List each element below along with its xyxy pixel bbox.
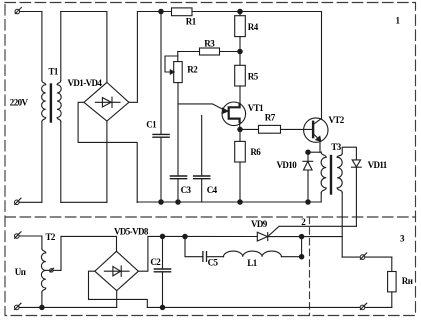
wire secondary top to bridge AC1 — [61, 12, 107, 83]
node junction VD10 top — [306, 150, 310, 154]
resistor R6 — [235, 129, 246, 202]
node junction C2 bottom — [160, 305, 164, 309]
svg-text:VD11: VD11 — [368, 160, 388, 170]
wire DC minus bottom rail — [147, 306, 391, 308]
wire VT1 base1 to junction — [239, 121, 241, 129]
wire L1 to node — [281, 256, 301, 258]
diode symbol inside VD1-VD4 — [95, 97, 120, 107]
svg-text:R7: R7 — [265, 113, 276, 123]
transformer T1 secondary winding — [57, 81, 61, 122]
node junction C1 bottom — [159, 200, 163, 204]
svg-text:Rн: Rн — [402, 276, 413, 286]
svg-text:L1: L1 — [247, 258, 257, 268]
wire bridge2 AC2 bottom lead — [116, 291, 118, 308]
tap of T2 — [46, 268, 61, 272]
wire VD9 cathode diagonal to upper line — [268, 226, 357, 236]
node junction L1 right — [299, 255, 303, 259]
capacitor C3 — [170, 176, 186, 202]
wire secondary bottom to bridge AC2 — [61, 201, 107, 203]
wire T3 secondary to RH — [342, 256, 392, 258]
resistor R1 — [172, 8, 193, 16]
svg-text:T3: T3 — [331, 142, 341, 152]
svg-text:R3: R3 — [204, 38, 215, 48]
diode VD9 — [257, 232, 342, 241]
capacitor C5 — [203, 252, 224, 262]
wire T1 primary bottom lead — [41, 122, 43, 203]
wire T3 secondary top to VD11 — [342, 147, 356, 160]
terminal output bottom — [360, 303, 367, 310]
svg-text:C2: C2 — [150, 257, 161, 267]
diode VD10 — [303, 152, 313, 202]
wire VT1 emitter from R2 node — [178, 104, 225, 111]
transistor VT1 (unijunction) — [222, 102, 246, 126]
node junction R6 bottom — [238, 200, 242, 204]
wire tap up to rail — [60, 236, 62, 270]
resistor R4 — [235, 12, 246, 52]
capacitor C2 — [154, 236, 170, 307]
node junction C5 branch — [183, 234, 187, 238]
node junction T2 bottom — [40, 305, 44, 309]
node junction VD9 out — [299, 234, 303, 238]
svg-text:R2: R2 — [187, 65, 198, 75]
bridge rectifier VD5-VD8 diamond — [95, 251, 139, 290]
svg-text:C1: C1 — [146, 120, 157, 130]
svg-text:R1: R1 — [186, 17, 197, 27]
svg-text:T2: T2 — [46, 232, 56, 242]
wire VT2 emitter down — [319, 140, 321, 152]
svg-text:VD10: VD10 — [277, 160, 298, 170]
node junction C1 top — [159, 9, 163, 13]
svg-text:C3: C3 — [181, 185, 192, 195]
terminal output top — [360, 253, 367, 260]
wire DC minus rail section1 — [137, 201, 321, 203]
wire T2 bottom lead — [41, 292, 43, 307]
node junction R4/R5/R3 — [238, 49, 242, 53]
node junction C3 bottom — [176, 200, 180, 204]
svg-text:T1: T1 — [49, 67, 59, 77]
svg-text:VT1: VT1 — [248, 103, 264, 113]
wire top rail R1 to VT2 collector — [192, 12, 322, 119]
resistor R5 — [235, 52, 246, 108]
border section divider vertical (2/3) — [309, 217, 311, 316]
node junction C2 top — [160, 234, 164, 238]
svg-text:C4: C4 — [207, 185, 218, 195]
terminal T2 bottom — [14, 303, 21, 310]
svg-text:R5: R5 — [248, 71, 259, 81]
transformer T1 core — [50, 85, 52, 122]
wire T1 secondary bottom lead — [60, 122, 62, 203]
resistor R7 — [240, 125, 313, 133]
potentiometer R2 — [174, 52, 183, 83]
wire bridge1 DC minus routing — [78, 102, 137, 202]
wire terminal to T2 top — [19, 236, 42, 249]
resistor RH load — [388, 257, 397, 307]
wire bridge2 DC minus routing — [89, 271, 148, 307]
svg-text:VD5-VD8: VD5-VD8 — [114, 227, 149, 237]
terminal input bottom-left section1 — [14, 198, 21, 205]
wire emitter node to T3 — [308, 151, 321, 153]
wire bottom AC rail section3 — [19, 306, 116, 308]
wiper arm R2 — [165, 56, 178, 74]
svg-text:R4: R4 — [248, 22, 259, 32]
wire T3 secondary bottom down — [341, 193, 343, 258]
svg-text:220V: 220V — [10, 98, 29, 108]
transformer T3 primary winding — [321, 152, 326, 193]
wire C5 branch down — [185, 237, 203, 257]
svg-text:VD9: VD9 — [251, 219, 268, 229]
wire terminal to T1 primary top — [20, 11, 42, 13]
wire T1 primary top lead — [41, 12, 43, 81]
diode symbol inside VD5-VD8 — [104, 266, 129, 276]
svg-text:VD1-VD4: VD1-VD4 — [68, 78, 103, 88]
transformer T3 secondary winding — [337, 154, 342, 193]
wire bridge1 AC2 bottom lead — [106, 121, 108, 202]
wire T1 secondary top lead — [60, 12, 62, 81]
wire bottom terminal to T1 primary — [19, 201, 42, 203]
wire bridge2 DC plus up — [138, 236, 257, 271]
svg-text:R6: R6 — [250, 147, 261, 157]
transformer T3 primary bottom lead — [320, 193, 322, 202]
transformer T2 winding — [41, 249, 45, 293]
capacitor C1 — [153, 12, 169, 203]
transformer T1 primary winding — [42, 81, 46, 122]
border section divider horizontal — [5, 216, 416, 218]
wire node vertical link — [301, 237, 303, 257]
transistor VT2 — [304, 118, 328, 142]
terminal T2 top — [14, 232, 21, 239]
wire bridge1 DC plus up — [129, 12, 172, 103]
svg-text:Uп: Uп — [15, 267, 26, 277]
wire rail tap to bridge2 AC1 — [61, 236, 117, 251]
wire R2 bottom / C3 top line — [177, 83, 179, 176]
capacitor C4 — [194, 115, 210, 202]
resistor R3 — [178, 48, 240, 55]
svg-text:VT2: VT2 — [329, 115, 345, 125]
node junction VD10 bottom — [306, 200, 310, 204]
node junction VT1/R6/R7 — [238, 127, 242, 131]
svg-text:C5: C5 — [208, 258, 219, 268]
diode VD11 — [352, 160, 362, 226]
inductor L1 — [224, 251, 282, 257]
bridge rectifier VD1-VD4 diamond — [84, 82, 129, 121]
node junction R4 top — [238, 9, 242, 13]
transformer T3 core — [330, 156, 332, 194]
terminal input top-left — [15, 7, 22, 13]
